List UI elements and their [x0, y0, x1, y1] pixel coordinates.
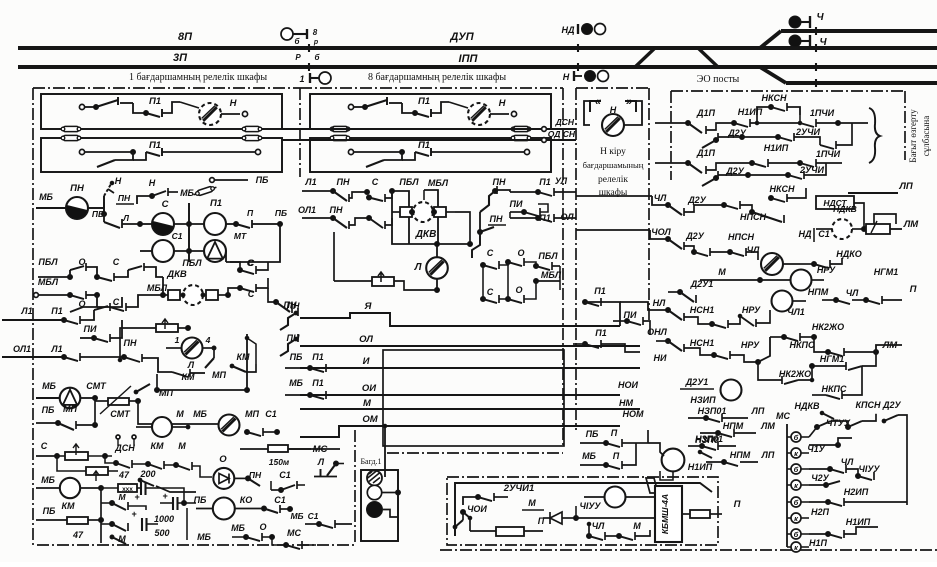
- svg-text:ЧОЛ: ЧОЛ: [651, 227, 671, 237]
- label LP right: [898, 181, 913, 192]
- label D2U b: [725, 166, 745, 176]
- svg-text:УЛ: УЛ: [555, 176, 568, 186]
- label DSN: [555, 117, 575, 127]
- label S relay: [162, 199, 169, 210]
- label P r edge: [910, 284, 917, 295]
- label KPSN D2U: [855, 400, 901, 410]
- label SMT2: [110, 409, 131, 419]
- svg-text:КМ: КМ: [236, 352, 250, 362]
- label Ch1UU kb: [576, 501, 601, 512]
- wire bus left vert: [349, 318, 351, 430]
- wire bus OI: [300, 394, 620, 396]
- label PBL grid: [38, 257, 58, 267]
- lamp L left: [166, 338, 214, 359]
- contact 2UChI b: [748, 163, 826, 179]
- wire loop area: [383, 350, 564, 446]
- wire lamp frame: [120, 348, 166, 372]
- label NKSN b: [770, 184, 795, 194]
- contact grid r1b: [95, 263, 164, 281]
- signal Bagd1 yellow: [367, 471, 382, 486]
- svg-text:МБЛ: МБЛ: [38, 277, 59, 287]
- svg-text:П1: П1: [418, 96, 430, 107]
- contact npm b2: [706, 458, 758, 466]
- label P1 cab8 row2: [418, 140, 430, 151]
- wire cabinet8 border top: [300, 87, 563, 89]
- svg-text:3П: 3П: [173, 52, 188, 64]
- slash SMT: [100, 386, 131, 414]
- label MB smt: [42, 381, 56, 391]
- contact P right: [226, 208, 268, 228]
- wire PBL vert: [390, 189, 410, 245]
- contact O g1: [506, 258, 561, 270]
- svg-text:Н1ИП: Н1ИП: [738, 107, 763, 117]
- contact KM c: [205, 346, 256, 372]
- label S g2: [487, 287, 494, 297]
- contact PN d: [172, 369, 205, 377]
- svg-text:С: С: [41, 441, 48, 451]
- svg-text:ПБ: ПБ: [290, 352, 303, 362]
- svg-text:О: О: [219, 454, 227, 465]
- svg-text:НРУ: НРУ: [741, 340, 760, 350]
- svg-text:М: М: [718, 267, 726, 277]
- wire ChL row: [576, 196, 668, 205]
- svg-text:МС: МС: [776, 411, 790, 421]
- svg-text:Д2У1: Д2У1: [690, 279, 714, 289]
- label D2U r1: [687, 195, 707, 205]
- svg-text:б: б: [794, 530, 799, 539]
- contact P1 cab1 row1: [133, 102, 180, 117]
- label NKPS a: [789, 340, 815, 350]
- contact 200: [118, 464, 196, 492]
- label NPSN r1: [740, 212, 766, 222]
- label PI c: [510, 199, 523, 209]
- wire L1 row: [2, 318, 67, 323]
- label DKV left: [166, 269, 187, 280]
- contact NK2ZhO a: [758, 330, 828, 366]
- label Ch1UU t1: [826, 418, 851, 428]
- label IIUP: [449, 31, 474, 43]
- relay ChL1: [770, 291, 806, 318]
- label 1PChI b: [816, 149, 841, 159]
- svg-text:«: «: [595, 96, 601, 108]
- label NOI r: [618, 380, 639, 390]
- contact S dkv: [226, 278, 269, 298]
- label B top: [295, 28, 319, 46]
- svg-text:Н2ИП: Н2ИП: [844, 487, 869, 497]
- fuse MB: [193, 185, 217, 197]
- contact N1IP b: [752, 159, 803, 167]
- label MB o: [231, 523, 245, 533]
- label ND S1: [799, 228, 830, 242]
- contact MB P cb: [580, 443, 636, 469]
- label MB b: [197, 532, 211, 542]
- wire OL1 c row: [302, 216, 336, 221]
- svg-text:КПСН Д2У: КПСН Д2У: [855, 400, 901, 410]
- svg-text:1: 1: [299, 74, 304, 84]
- label PN c3: [330, 205, 343, 215]
- svg-text:ПБ: ПБ: [194, 495, 207, 505]
- svg-text:ПБЛ: ПБЛ: [399, 177, 419, 187]
- svg-text:1000: 1000: [154, 514, 174, 524]
- relay PN: [36, 197, 104, 221]
- svg-text:+: +: [134, 492, 140, 502]
- wire bottom border right part: [440, 549, 937, 551]
- svg-text:4: 4: [205, 335, 211, 345]
- label S c1: [372, 177, 379, 187]
- wire o out: [234, 476, 262, 486]
- label N1IP cb: [688, 462, 713, 472]
- label D1P b: [696, 148, 716, 158]
- contact D2U r2: [666, 237, 697, 255]
- label MS r: [313, 444, 328, 455]
- label I bus: [363, 356, 370, 367]
- label M kb1: [522, 498, 544, 510]
- label OL c: [560, 212, 574, 222]
- contact L r: [314, 461, 352, 477]
- svg-text:ДСН: ДСН: [555, 117, 575, 127]
- label R B: [295, 53, 320, 62]
- wire kbm to term: [722, 513, 748, 515]
- label PI: [84, 324, 97, 334]
- wire grid right: [161, 277, 166, 298]
- svg-text:2УЧИ: 2УЧИ: [799, 165, 824, 175]
- label LM r2: [882, 340, 899, 351]
- wire dsn terminals: [542, 127, 547, 143]
- res kb: [463, 512, 543, 536]
- svg-text:НСН1: НСН1: [690, 338, 715, 348]
- contact MS o: [272, 537, 316, 549]
- label OI bus: [362, 383, 376, 394]
- contact PB P cb: [580, 439, 636, 447]
- wire mp cluster: [157, 374, 247, 414]
- contact NSN1 a: [666, 308, 741, 329]
- wire ko row: [235, 505, 293, 513]
- label M bl: [178, 441, 186, 451]
- wire bus OM: [300, 426, 620, 437]
- svg-text:С1: С1: [274, 495, 286, 505]
- label N2P t: [811, 507, 830, 517]
- label PB P cb: [586, 428, 618, 439]
- wire cap1 right: [160, 488, 184, 503]
- contact N up: [104, 181, 114, 214]
- label P1 relay: [210, 198, 222, 209]
- vertical bus mid: [182, 203, 253, 268]
- wire cabinet1 border top: [33, 87, 300, 89]
- svg-text:Н1П: Н1П: [809, 538, 828, 548]
- label OL bus: [359, 334, 373, 345]
- svg-text:П: П: [613, 451, 620, 461]
- svg-text:С: С: [113, 297, 120, 307]
- contact D1P b: [688, 161, 755, 175]
- wire border mid bottom: [387, 452, 563, 454]
- wire m relay link: [172, 423, 218, 425]
- res 150: [240, 445, 311, 467]
- label PB ko: [194, 495, 207, 505]
- svg-text:Д1П: Д1П: [696, 108, 716, 118]
- svg-text:ЧЛ: ЧЛ: [654, 193, 667, 203]
- label cabinet8: [368, 72, 506, 83]
- label 2UChI b: [799, 165, 824, 175]
- wire cap bus right: [187, 503, 196, 540]
- lamp L c8: [426, 242, 448, 293]
- svg-text:Н1ИП: Н1ИП: [846, 517, 871, 527]
- relay N1IP cb: [648, 443, 684, 480]
- label 8P: [178, 31, 193, 43]
- wire bus Ya: [300, 313, 620, 326]
- svg-text:1ПЧИ: 1ПЧИ: [816, 149, 841, 159]
- svg-text:П1: П1: [418, 140, 430, 151]
- svg-text:ПН: ПН: [493, 177, 506, 187]
- label MP c: [212, 370, 226, 380]
- label L1 b: [50, 344, 62, 354]
- label 1000 500: [154, 514, 174, 538]
- label MB km: [41, 475, 55, 485]
- wire OL1 row: [2, 355, 67, 360]
- label ONL r: [647, 327, 668, 337]
- node insulated joint 8P mid: [577, 44, 579, 52]
- svg-text:ЧЛ1: ЧЛ1: [787, 307, 805, 317]
- svg-text:СМТ: СМТ: [110, 409, 131, 419]
- svg-text:ЭО посты: ЭО посты: [697, 74, 740, 85]
- svg-text:ОИ: ОИ: [362, 383, 376, 394]
- wire turnout to upper siding: [760, 31, 781, 48]
- svg-text:Бағыт өзгерту: Бағыт өзгерту: [908, 109, 918, 163]
- svg-text:КМ: КМ: [181, 372, 195, 382]
- label L c8: [414, 262, 423, 273]
- svg-text:И: И: [363, 356, 370, 367]
- svg-text:ЛП: ЛП: [751, 406, 765, 416]
- contact NSN1 b: [656, 339, 717, 369]
- label NPM b1: [723, 421, 744, 431]
- svg-text:МС: МС: [287, 528, 301, 538]
- wire P1 row right: [226, 222, 283, 263]
- svg-text:500: 500: [154, 528, 169, 538]
- relay N2IP r: [721, 380, 759, 401]
- svg-text:НДКВ: НДКВ: [833, 204, 857, 214]
- label NK2ZhO a: [812, 322, 844, 332]
- svg-text:ПН: ПН: [70, 183, 85, 194]
- label 1PChI a: [810, 108, 835, 118]
- svg-text:О: О: [259, 522, 266, 532]
- label NDKV b: [794, 401, 834, 419]
- wire MBL vert: [424, 190, 438, 244]
- wire crossover left diagonal: [635, 48, 655, 67]
- fuse box2 right: [240, 135, 264, 140]
- label NOM r: [623, 409, 645, 419]
- contact 2uchi: [463, 493, 508, 505]
- svg-text:Я: Я: [364, 301, 373, 312]
- label D2U a: [727, 128, 747, 138]
- label Ch1U t: [807, 444, 825, 454]
- svg-text:НЛ: НЛ: [653, 298, 666, 308]
- svg-text:НКПС: НКПС: [821, 384, 847, 394]
- signal 8: [281, 28, 307, 40]
- relay DKV left: [163, 285, 228, 305]
- contact ChL r2: [730, 248, 758, 260]
- res 47 bl: [57, 456, 118, 481]
- svg-text:ОЛ1: ОЛ1: [13, 344, 31, 354]
- res arrow left: [136, 319, 191, 332]
- label 3P: [173, 52, 188, 64]
- svg-text:б: б: [315, 53, 321, 62]
- contact S1 r: [271, 481, 305, 493]
- wire cabinet1/8 divider: [299, 88, 301, 177]
- svg-text:ЧЛ: ЧЛ: [846, 288, 859, 298]
- cap 1: [134, 482, 160, 502]
- label D2U1 r: [690, 279, 714, 289]
- res arrow c8: [334, 272, 437, 290]
- svg-text:НПМ: НПМ: [808, 287, 829, 297]
- label MB left: [39, 192, 53, 202]
- label N1IP a: [738, 107, 763, 117]
- wire N cabinet top: [576, 87, 649, 89]
- cap 2: [160, 497, 189, 510]
- label PB km: [43, 506, 56, 516]
- label NI r: [654, 353, 667, 363]
- wire right col: [877, 510, 879, 534]
- contact M bl: [148, 461, 212, 477]
- contact PB P1 bus: [285, 364, 340, 372]
- relay MT: [204, 240, 226, 262]
- label cabinet1: [129, 72, 267, 83]
- svg-text:Ч: Ч: [819, 37, 827, 48]
- svg-text:ПБЛ: ПБЛ: [182, 258, 202, 268]
- relay P1: [204, 213, 226, 235]
- label NRU r: [817, 265, 836, 275]
- svg-text:НДКО: НДКО: [836, 249, 861, 259]
- label PN dkv: [284, 300, 297, 310]
- contact D2U r1: [666, 203, 727, 217]
- label PB MP: [42, 404, 78, 415]
- contact NGM1 b: [810, 352, 877, 370]
- wire M nru: [700, 278, 763, 283]
- contact PN c1: [333, 190, 370, 203]
- label bagyt: [908, 109, 931, 163]
- label PB 1: [92, 209, 104, 219]
- svg-text:ДКВ: ДКВ: [415, 229, 437, 240]
- svg-text:НПМ: НПМ: [730, 450, 751, 460]
- svg-text:ПН: ПН: [118, 193, 131, 203]
- relay NRU: [760, 270, 824, 291]
- contact S c1: [367, 191, 393, 202]
- contact chl t: [809, 421, 886, 480]
- wire N entr loop: [584, 101, 642, 125]
- label P1 cab1 row2: [149, 140, 161, 151]
- contact MP S1: [245, 428, 280, 436]
- wire bus OL: [300, 345, 640, 347]
- contact n1p t: [809, 527, 878, 538]
- wire turnout to lower siding: [760, 67, 786, 83]
- svg-text:Н: Н: [499, 98, 507, 109]
- wire dkv loop: [392, 191, 473, 247]
- svg-text:М: М: [363, 398, 372, 409]
- label N1IP t: [846, 517, 871, 527]
- contact P1 OL: [510, 212, 576, 222]
- label S grid: [113, 257, 120, 267]
- svg-text:ДУП: ДУП: [449, 31, 474, 43]
- svg-text:Ч2У: Ч2У: [811, 473, 829, 483]
- label UL: [555, 176, 568, 186]
- svg-text:МБ: МБ: [231, 523, 245, 533]
- label NRU b: [741, 340, 760, 350]
- wire rowA right: [838, 122, 868, 124]
- contact n2p t: [809, 498, 907, 506]
- svg-text:Н кіру: Н кіру: [600, 147, 626, 157]
- wire DSN: [282, 128, 576, 130]
- svg-text:МБ: МБ: [197, 532, 211, 542]
- svg-text:П: П: [247, 208, 254, 218]
- svg-text:релелік: релелік: [598, 175, 628, 185]
- res SMT: [95, 398, 152, 424]
- contact 1PChI b: [800, 159, 842, 167]
- svg-text:НМ: НМ: [619, 398, 633, 408]
- svg-text:8П: 8П: [178, 31, 193, 43]
- svg-text:НЛ: НЛ: [680, 306, 681, 307]
- contact NKPS b: [810, 366, 862, 399]
- contact chl kb: [581, 528, 650, 540]
- wire bus I: [300, 367, 640, 369]
- label 1 4 lamp: [175, 335, 211, 345]
- label Ch2U t: [811, 473, 829, 483]
- svg-text:200: 200: [139, 469, 155, 479]
- contact MB P1 bus: [285, 391, 340, 399]
- label MB P cb: [582, 451, 620, 461]
- svg-text:ДКВ: ДКВ: [166, 269, 187, 280]
- svg-text:ОЛ: ОЛ: [560, 212, 574, 222]
- contact NKSN a: [757, 103, 800, 115]
- label S g1: [487, 248, 494, 258]
- svg-text:П: П: [734, 499, 741, 510]
- svg-text:МБ: МБ: [180, 188, 194, 198]
- wire term vert: [786, 424, 788, 547]
- wire mp bus: [120, 372, 136, 407]
- contact D1P a: [688, 121, 737, 135]
- label OM bus: [362, 414, 378, 425]
- label PN relay: [70, 183, 85, 194]
- contact 2UChI a: [742, 123, 852, 149]
- svg-text:П1: П1: [51, 306, 62, 316]
- svg-text:ПН: ПН: [490, 214, 503, 224]
- svg-text:Л1: Л1: [20, 306, 32, 316]
- label M bus: [363, 398, 372, 409]
- contact S g2: [481, 265, 511, 303]
- label S bl: [41, 441, 48, 451]
- svg-text:М: М: [176, 409, 184, 419]
- svg-text:Ч: Ч: [816, 12, 824, 23]
- label MB mid: [180, 188, 194, 198]
- label N kiru: [583, 147, 644, 198]
- svg-text:ЛП: ЛП: [898, 181, 913, 192]
- label KM lamp: [181, 372, 195, 382]
- svg-text:Л: Л: [122, 213, 129, 223]
- svg-text:8: 8: [313, 28, 318, 37]
- label O grid2: [78, 299, 85, 309]
- contact ch1u t: [809, 438, 852, 453]
- label O grid: [78, 257, 85, 267]
- label MS b: [776, 411, 790, 421]
- svg-text:Л1: Л1: [50, 344, 62, 354]
- label PN c1: [337, 177, 350, 187]
- wire ndst right: [854, 202, 893, 204]
- svg-text:Л: Л: [187, 360, 195, 370]
- svg-text:П1: П1: [595, 328, 606, 338]
- label S dkv2: [248, 258, 255, 268]
- wire EO border top: [671, 90, 905, 92]
- svg-text:1ПЧИ: 1ПЧИ: [810, 108, 835, 118]
- contact NDKO: [800, 229, 864, 268]
- label MB S1: [290, 511, 318, 521]
- label N3P01 a: [698, 406, 727, 416]
